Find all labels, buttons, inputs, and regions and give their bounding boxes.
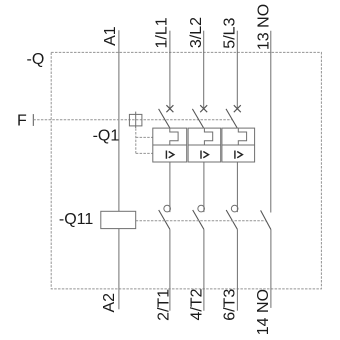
breaker blade pole 3 <box>226 109 237 128</box>
wire A2 (coil bottom) <box>118 229 120 310</box>
thermal latch pole 3 <box>238 128 246 145</box>
overload release box pole 2 <box>188 128 221 162</box>
trip actuator stem <box>135 112 137 128</box>
wire pole 3 (box to contact) <box>236 162 238 212</box>
overload release box pole 3 <box>222 128 255 162</box>
dashed trip link branch lower <box>136 152 153 154</box>
svg-text:F: F <box>17 113 27 130</box>
wire 4/T2 (bottom) <box>203 229 205 310</box>
wire 6/T3 (bottom) <box>236 229 238 310</box>
overcurrent symbol I> pole 2 <box>201 151 209 159</box>
overload release box pole 1 <box>153 128 187 162</box>
F tick mark <box>32 114 34 126</box>
svg-text:14 NO: 14 NO <box>255 289 272 335</box>
svg-text:-Q11: -Q11 <box>59 211 93 228</box>
svg-text:3/L2: 3/L2 <box>188 17 205 48</box>
contactor blade pole 1 <box>159 210 170 229</box>
contactor blade pole 3 <box>226 210 237 229</box>
svg-text:1/L1: 1/L1 <box>154 17 171 48</box>
enclosure dashed boundary -Q <box>51 52 321 289</box>
overcurrent symbol I> pole 1 <box>166 151 174 159</box>
wire 14 NO (aux, bottom) <box>270 230 272 308</box>
breaker contact cross pole 1 <box>166 105 173 112</box>
thermal latch pole 1 <box>170 128 178 145</box>
overcurrent symbol I> pole 3 <box>235 151 243 159</box>
contactor blade pole 2 <box>193 210 204 229</box>
contact tip circle pole 3 <box>231 205 238 212</box>
breaker contact cross pole 3 <box>234 105 241 112</box>
wire 3/L2 (top) <box>203 31 205 109</box>
breaker blade pole 1 <box>159 109 170 128</box>
coil -Q11 <box>101 211 136 228</box>
breaker contact cross pole 2 <box>200 105 207 112</box>
svg-text:6/T3: 6/T3 <box>222 289 239 321</box>
thermal latch pole 2 <box>204 128 212 145</box>
trip actuator square <box>129 114 142 126</box>
wire pole 2 (box to contact) <box>203 162 205 212</box>
breaker blade pole 2 <box>192 109 203 128</box>
svg-text:A2: A2 <box>101 293 118 313</box>
contact tip circle pole 1 <box>164 205 171 212</box>
dashed trip link branch upper <box>136 136 153 138</box>
contact tip circle pole 2 <box>198 205 205 212</box>
wire 1/L1 (top) <box>169 31 171 109</box>
svg-text:-Q: -Q <box>27 51 45 68</box>
svg-text:4/T2: 4/T2 <box>189 288 206 320</box>
coil mechanical dashed linkage <box>136 220 266 222</box>
F trip dashed linkage line <box>33 119 231 121</box>
wire 2/T1 (bottom) <box>169 229 171 310</box>
svg-text:13 NO: 13 NO <box>255 4 272 50</box>
dashed trip link vertical <box>135 128 137 153</box>
wire 13 NO (aux, top) <box>270 31 272 213</box>
svg-text:5/L3: 5/L3 <box>221 17 238 48</box>
svg-text:-Q1: -Q1 <box>93 128 120 145</box>
wire A1 (coil supply, top) <box>118 30 120 211</box>
wire 5/L3 (top) <box>236 31 238 109</box>
aux contact blade 13-14 <box>261 210 271 229</box>
wire pole 1 (box to contact) <box>169 162 171 212</box>
svg-text:A1: A1 <box>102 26 119 46</box>
svg-text:2/T1: 2/T1 <box>156 289 173 321</box>
